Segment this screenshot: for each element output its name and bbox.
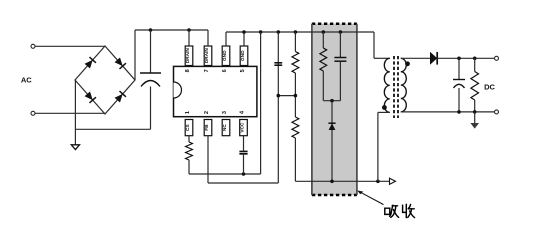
node VCC cap bottom — [242, 172, 246, 176]
wire out cap bottom — [458, 88, 460, 112]
wire R-CS to rail — [188, 160, 190, 174]
bridge diode D1 — [85, 60, 93, 69]
pin 7 label box — [204, 46, 212, 66]
pin 6 label box — [222, 46, 230, 66]
node snubber C top — [339, 30, 343, 34]
bridge diode D2 — [115, 58, 123, 67]
wire x295 top — [294, 32, 296, 52]
wire snubber mid down — [331, 101, 333, 182]
wire pin7 up — [207, 30, 209, 46]
DC- terminal — [495, 110, 499, 114]
resistor R-load — [471, 72, 479, 101]
wire to drain node — [295, 180, 389, 182]
node bulk cap top — [149, 28, 153, 32]
transformer secondary winding — [401, 58, 407, 112]
ground — [71, 145, 79, 150]
AC input terminal bottom — [31, 111, 35, 115]
node snubber R top — [322, 30, 326, 34]
label absorb (Chinese) — [385, 208, 390, 214]
drain wire arrow — [390, 178, 396, 184]
wire primary bottom — [378, 111, 390, 113]
op-amp U1 body — [174, 66, 257, 116]
diode D-out — [430, 52, 437, 65]
capacitor C-out — [453, 79, 465, 81]
svg-text:GND: GND — [240, 50, 246, 61]
wire AC bottom to bridge — [35, 112, 105, 114]
bridge diode D3 — [85, 92, 93, 101]
node out res bottom — [473, 110, 477, 114]
wire pin5 up — [243, 32, 245, 46]
node conn right — [294, 94, 298, 98]
wire C-snub down — [339, 61, 341, 100]
svg-text:6: 6 — [222, 69, 228, 72]
svg-text:3: 3 — [222, 111, 228, 114]
svg-text:GND: GND — [222, 50, 228, 61]
resistor R1 divider — [292, 52, 299, 74]
wire out cap top — [458, 58, 460, 79]
wire snubber R top — [322, 32, 324, 48]
rail1 CS/VCC ground return — [189, 173, 261, 175]
node primary bottom — [376, 180, 380, 184]
secondary polarity dot — [405, 61, 410, 66]
node pin8 — [187, 28, 191, 32]
pin 5 label box — [240, 46, 248, 66]
wire out res top — [474, 58, 476, 71]
node x295 — [294, 30, 298, 34]
svg-text:DC: DC — [484, 82, 495, 91]
node x278 — [277, 30, 281, 34]
svg-text:2: 2 — [204, 111, 210, 114]
wire bridge negative down — [74, 80, 76, 145]
svg-text:NC: NC — [222, 124, 228, 131]
pin 4 label box — [240, 120, 248, 136]
diode D-snub — [329, 123, 336, 130]
wire bridge positive up — [134, 30, 136, 80]
transformer primary winding — [384, 58, 390, 112]
wire pin2 down — [207, 136, 209, 183]
wire x278 down — [277, 32, 279, 183]
svg-text:AC: AC — [21, 76, 32, 85]
capacitor C-FB — [274, 62, 282, 64]
svg-text:DRAIN: DRAIN — [185, 48, 191, 64]
svg-text:FB: FB — [204, 124, 210, 131]
wire pin4 down — [243, 136, 245, 151]
annotation arrow — [361, 192, 384, 204]
node pin5 — [242, 30, 246, 34]
wire out res bottom — [474, 100, 476, 112]
node out res top — [473, 57, 477, 61]
wire bulk cap top — [150, 30, 152, 73]
AC input terminal top — [31, 44, 35, 48]
HV rail to drain pins — [135, 29, 208, 31]
wire pin1 down — [188, 136, 190, 142]
svg-text:CS: CS — [185, 123, 191, 130]
pin 8 label box — [185, 46, 193, 66]
resistor R-snub — [320, 48, 327, 71]
snubber join wire — [323, 100, 340, 102]
svg-text:7: 7 — [204, 69, 210, 72]
svg-text:1: 1 — [185, 111, 191, 114]
node out cap top — [457, 57, 461, 61]
wire pin8 up — [188, 30, 190, 46]
capacitor C-snub — [334, 57, 346, 59]
ground rail to bulk cap — [75, 128, 150, 130]
bridge rectifier frame — [75, 46, 135, 114]
wire to output ground — [474, 112, 476, 123]
wire R2 down — [294, 138, 296, 181]
wire secondary top — [401, 57, 430, 59]
node snubber bottom — [330, 180, 334, 184]
resistor R2 divider — [292, 117, 299, 138]
pin 1 label box — [185, 120, 193, 136]
snubber region box — [312, 24, 357, 195]
svg-text:5: 5 — [240, 69, 246, 72]
node out cap bottom — [457, 110, 461, 114]
wire rail to primary — [357, 31, 374, 33]
svg-text:8: 8 — [185, 69, 191, 72]
bulk capacitor C1 — [140, 72, 161, 74]
resistor R-CS — [186, 142, 193, 160]
wire x260 down — [260, 32, 262, 174]
wire snubber C top — [339, 32, 341, 57]
connector x278-x295 — [278, 95, 295, 97]
svg-text:DRAIN: DRAIN — [204, 48, 210, 64]
bridge diode D4 — [115, 94, 123, 103]
pin 3 label box — [222, 120, 230, 136]
wire C-VCC to rail — [243, 155, 245, 174]
rail2 FB return — [208, 182, 278, 184]
pin 2 label box — [204, 120, 212, 136]
wire AC top to bridge — [35, 45, 105, 47]
GND rail — [226, 31, 357, 33]
wire bulk cap bottom — [150, 87, 152, 130]
wire pin6 up — [225, 32, 227, 46]
node snubber join — [330, 99, 334, 103]
wire R1 to node — [294, 73, 296, 117]
DC+ terminal — [495, 56, 499, 60]
node conn left — [277, 94, 281, 98]
output bottom rail — [401, 111, 496, 113]
wire diode to terminal — [437, 57, 496, 59]
svg-text:VCC: VCC — [240, 122, 246, 133]
node x260 — [259, 30, 263, 34]
transformer core — [393, 56, 395, 118]
capacitor C-VCC — [239, 151, 247, 153]
wire R-snub down — [322, 71, 324, 101]
output ground — [470, 123, 479, 129]
primary polarity dot — [382, 105, 387, 110]
